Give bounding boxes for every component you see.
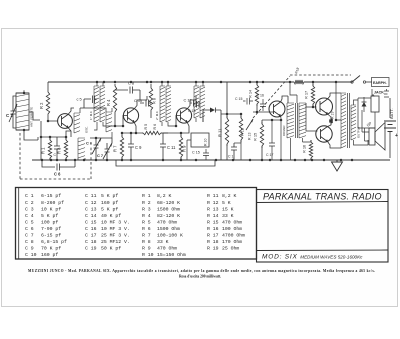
svg-text:R 19: R 19 [331,112,335,119]
svg-text:10 MF 3 V.: 10 MF 3 V. [101,226,130,232]
svg-text:8,2 K: 8,2 K [222,193,237,199]
svg-text:R 14: R 14 [207,213,219,219]
resistor R9 [179,132,186,160]
svg-text:70 K pf: 70 K pf [41,246,61,252]
capacitor C11 [160,133,181,160]
svg-text:R 12: R 12 [207,200,219,206]
svg-text:1500 Ohm: 1500 Ohm [157,226,180,232]
resistor R18 (supply decoupling, in bus) [293,67,305,84]
resistor R14 [248,82,259,112]
svg-text:C 9: C 9 [25,246,34,252]
node junction dots on bottom bus [41,159,354,162]
battery B1 [384,98,398,158]
svg-text:R 18: R 18 [207,239,219,245]
resistor R7 [113,132,124,160]
resistor R5 R6 (TR2 emitter chain) [122,124,168,135]
oscillator coil L2 main winding [78,138,85,160]
svg-text:C 6: C 6 [25,226,34,232]
resistor R3 [57,131,72,160]
svg-text:R 17: R 17 [207,233,219,239]
wire TR3 base [175,116,181,128]
svg-text:160 pf: 160 pf [101,200,118,206]
svg-text:MOD: SIX MEDIUM WAVES 520-1600: MOD: SIX MEDIUM WAVES 520-1600Kc [262,254,363,261]
svg-text:C 8: C 8 [25,239,34,245]
transistor TR2 (1st IF amplifier) [123,108,138,123]
svg-text:R 11: R 11 [218,128,223,137]
svg-text:C 16: C 16 [257,94,264,98]
IF transformer T2 label [155,110,159,120]
svg-text:R 9: R 9 [142,246,151,252]
driver transformer T4 [287,82,306,160]
capacitor C5 [77,96,98,109]
svg-text:c 5: c 5 [77,97,82,102]
title text PARKANAL TRANS. RADIO [263,192,382,202]
svg-text:C 7: C 7 [97,153,103,158]
svg-text:6-15 pf: 6-15 pf [41,233,61,239]
trimmer capacitor C7 (osc gang) [97,143,112,159]
wire TR4 emitter [280,116,283,160]
wire antenna frame stub [23,90,25,93]
svg-text:5 K: 5 K [222,200,231,206]
wire TR5 base net [306,103,317,108]
IF transformer T2 [160,82,176,126]
svg-text:R 4: R 4 [142,213,151,219]
svg-text:R 14: R 14 [248,89,253,98]
svg-text:BATT.: BATT. [389,108,394,119]
svg-text:R 5: R 5 [142,219,151,225]
svg-text:R 19: R 19 [207,246,219,252]
svg-text:R 2: R 2 [39,102,44,109]
wire TR2 collector to T2 [134,96,147,109]
capacitor C15 [235,97,253,105]
svg-text:R 3: R 3 [57,147,62,154]
svg-text:R 17: R 17 [304,91,309,99]
svg-text:R 8: R 8 [142,239,151,245]
svg-text:6,8-15 pf: 6,8-15 pf [41,239,67,245]
svg-text:R 1: R 1 [142,193,151,199]
transistor TR6 (output, lower) [316,126,332,142]
svg-text:R 10: R 10 [204,139,208,146]
svg-text:C 16: C 16 [85,226,97,232]
svg-text:8,2 K: 8,2 K [157,193,172,199]
diode D2 (bias) [362,97,367,112]
capacitor C13 [188,101,199,113]
resistor R2 (base bias TR1) [39,82,50,116]
wire TR3 emitter [181,122,189,133]
wire TR1 emitter down [68,128,71,138]
svg-text:2° M.F.: 2° M.F. [155,110,159,120]
node junction dots on top bus [96,81,338,84]
svg-text:R 11: R 11 [207,193,219,199]
capacitor C8 (AGC coupling) [115,81,140,101]
svg-text:Resa d'uscita 200 milliwatt.: Resa d'uscita 200 milliwatt. [179,275,221,279]
capacitor C17 (base bypass) [257,94,267,112]
svg-text:25 MF 3 V.: 25 MF 3 V. [101,233,130,239]
svg-text:100 pf: 100 pf [41,219,58,225]
parts list column 4 (R11-R19) [207,193,245,251]
svg-text:170 Ohm: 170 Ohm [222,239,242,245]
variable capacitor C1 (tuning gang section A) [6,96,17,128]
svg-text:50 K pf: 50 K pf [101,246,121,252]
resistor R19 (emitter balance) [328,112,335,127]
svg-text:C 3: C 3 [25,206,34,212]
parts list column 3 (R1-R10) [142,193,186,258]
oscillator coil label [85,126,89,133]
ground symbol [332,160,343,171]
wire TR4 base net [253,111,273,114]
svg-text:25 Ohm: 25 Ohm [222,246,239,252]
svg-text:C 11: C 11 [167,145,176,150]
caption line 2 [179,275,221,279]
svg-text:C 14: C 14 [85,213,97,219]
wire TR6 base net [306,107,318,131]
svg-text:R 13: R 13 [207,206,219,212]
wire bottom ground bus [32,159,390,161]
capacitor C16 (AF coupling electrolytic) [228,143,241,160]
wire TR2 emitter [134,122,136,133]
svg-text:C 8: C 8 [128,81,134,86]
wire dashed tuning-gang link (bottom) [20,178,91,180]
svg-text:C 10: C 10 [25,252,37,258]
wire TR4 collector to driver transformer [281,96,289,103]
wire secondary bottom return [116,160,215,166]
resistor R17 [304,82,315,108]
resistor R8 [149,84,156,118]
wire dashed switch link (horizontal) [290,74,351,76]
svg-text:5 K pf: 5 K pf [101,193,118,199]
loudspeaker SP [365,120,385,150]
model text MOD: SIX MEDIUM WAVES [262,254,363,261]
svg-text:82-120 K: 82-120 K [157,213,180,219]
svg-text:JACK: JACK [374,91,384,95]
svg-text:1° M.F.: 1° M.F. [89,110,93,120]
svg-text:R 5: R 5 [144,124,148,130]
wire dashed volume-to-switch link (diagonal) [253,76,290,118]
IF transformer T3 [194,82,205,122]
svg-text:15 K: 15 K [222,206,234,212]
thermistor network box [358,96,379,128]
wire TR3 collector to T3 [187,96,196,109]
wire antenna to base of TR1 [24,112,40,140]
svg-text:PARKANAL TRANS. RADIO: PARKANAL TRANS. RADIO [263,192,382,202]
svg-text:OSC.: OSC. [85,126,89,133]
IF transformer T1 [94,82,123,130]
svg-text:R18: R18 [294,67,300,74]
oscillator coil L2 feedback winding [74,113,80,133]
wire R2 to TR1 base [47,116,58,122]
oscillator coil L2 secondary winding [80,108,112,138]
driver transformer label [282,125,286,136]
transistor TR5 (output, upper) [316,98,333,115]
transistor TR4 (AF driver) [269,101,285,117]
svg-text:R 2: R 2 [142,200,151,206]
svg-text:C 1: C 1 [228,155,234,159]
capacitor C18 (emitter bypass) [266,119,275,160]
trimmer capacitor C6 (osc gang) [86,138,101,154]
wire dashed tuning-gang link (left) [19,133,21,179]
svg-text:C 2: C 2 [25,200,34,206]
svg-text:470 Ohm: 470 Ohm [222,219,242,225]
antenna coil label [30,107,34,127]
wire top supply bus [48,81,352,83]
svg-text:R 7: R 7 [113,145,118,152]
earphone jack box [372,78,390,98]
svg-text:C 15: C 15 [192,151,200,155]
svg-text:R 9: R 9 [182,145,187,152]
transistor TR1 (converter) [58,114,73,129]
svg-text:C 11: C 11 [85,193,97,199]
svg-text:R 15: R 15 [253,133,258,141]
svg-text:C 15: C 15 [85,219,97,225]
svg-text:R 8: R 8 [152,98,157,104]
parts list column 1 (C1-C10) [25,193,67,258]
svg-text:C 1: C 1 [6,113,13,118]
svg-text:C 6: C 6 [54,172,61,177]
capacitor C12 [184,98,199,107]
svg-text:C 9: C 9 [135,145,142,150]
svg-text:C 4: C 4 [25,213,34,219]
svg-text:40 K pf: 40 K pf [101,213,121,219]
svg-text:4700 Ohm: 4700 Ohm [222,233,245,239]
resistor R15 (TR4 emitter) [253,120,282,160]
svg-text:R 16: R 16 [302,145,307,153]
title box frame [257,190,389,263]
resistor R1 (TR1 emitter) [40,121,57,160]
wire dashed tuning-gang link (right) [90,146,92,179]
svg-text:C 19: C 19 [85,246,97,252]
svg-text:R 3: R 3 [142,206,151,212]
resistor R11 (volume divider) [218,82,242,160]
parts list box [16,188,257,260]
svg-text:C 1: C 1 [25,193,34,199]
svg-text:R 7: R 7 [142,233,151,239]
svg-text:R 12: R 12 [241,128,245,136]
svg-text:8-260 pf: 8-260 pf [41,200,64,206]
svg-text:R 13: R 13 [248,133,252,140]
svg-text:R 6: R 6 [142,226,151,232]
svg-text:6-15 pf: 6-15 pf [41,193,61,199]
transistor TR3 (2nd IF amplifier) [176,108,191,123]
wire TR2 base [122,116,128,128]
output transformer label [357,126,361,138]
caption line 1 [28,269,375,273]
svg-text:33 K: 33 K [222,213,234,219]
svg-text:C 12: C 12 [85,200,97,206]
capacitor C3 (TR1 emitter bypass) [54,137,61,160]
svg-text:100 Ohm: 100 Ohm [222,226,242,232]
svg-text:68-120 K: 68-120 K [157,200,180,206]
capacitor C10 [134,98,151,107]
wire osc trimmer net [90,137,112,160]
switch S1 (on-off on bus) [351,76,372,84]
wire TR5 collector [328,93,342,99]
AGC filter block R10 C14 [187,133,209,160]
svg-text:5 K pf: 5 K pf [41,213,58,219]
IF transformer T1 label [89,110,93,120]
ferrite antenna coil L1 [16,92,29,132]
svg-text:1500 Ohm: 1500 Ohm [157,206,180,212]
svg-text:C 13: C 13 [85,206,97,212]
potentiometer R12 (volume) [239,113,253,160]
output transformer T5 [335,82,368,148]
svg-text:DRIVER: DRIVER [282,125,286,136]
svg-text:C 5: C 5 [25,219,34,225]
resistor R16 [302,140,313,160]
wire TR1 collector to oscillator coil [68,108,74,115]
svg-text:MUZZIINI JUNCO - Mod. PARKANAL: MUZZIINI JUNCO - Mod. PARKANAL SIX. Appa… [28,269,375,273]
svg-text:470 Ohm: 470 Ohm [157,219,177,225]
svg-text:R 10: R 10 [142,252,154,258]
capacitor C2 (AGC filter) [42,160,75,177]
svg-text:+: + [395,133,398,139]
svg-text:C 13: C 13 [188,109,195,113]
diode D1 (detector) [203,108,221,161]
svg-text:10 K pf: 10 K pf [41,206,61,212]
svg-text:C 7: C 7 [25,233,34,239]
svg-text:C 18: C 18 [85,239,97,245]
svg-text:100-100 K: 100-100 K [157,233,183,239]
svg-text:R 4: R 4 [106,99,111,106]
svg-text:15=150 Ohm: 15=150 Ohm [157,252,186,258]
svg-text:5 K pf: 5 K pf [101,206,118,212]
svg-text:EARPH.: EARPH. [373,81,387,85]
svg-text:R 15: R 15 [207,219,219,225]
svg-text:C 17: C 17 [266,153,273,157]
capacitor C9 [128,132,142,160]
wire speaker to transformer [362,110,369,141]
svg-text:10 MF 3 V.: 10 MF 3 V. [101,219,130,225]
svg-text:C 6: C 6 [86,141,93,146]
svg-text:SP: SP [365,120,372,127]
svg-text:160 pf: 160 pf [41,252,58,258]
wire TR6 collector [328,142,342,149]
resistor R4 (TR2 base bias) [106,84,117,127]
svg-text:33 K: 33 K [157,239,169,245]
svg-text:C 17: C 17 [85,233,97,239]
battery label [389,108,394,119]
svg-text:C 15: C 15 [235,97,242,101]
svg-text:R 16: R 16 [207,226,219,232]
svg-text:25 MF12 V.: 25 MF12 V. [101,239,130,245]
svg-text:7-90 pf: 7-90 pf [41,226,61,232]
parts list column 2 (C11-C19) [85,193,130,251]
svg-text:R 1: R 1 [41,147,46,154]
svg-text:C 10: C 10 [134,98,143,103]
svg-text:470 Ohm: 470 Ohm [157,246,177,252]
svg-text:R 6: R 6 [153,124,157,130]
